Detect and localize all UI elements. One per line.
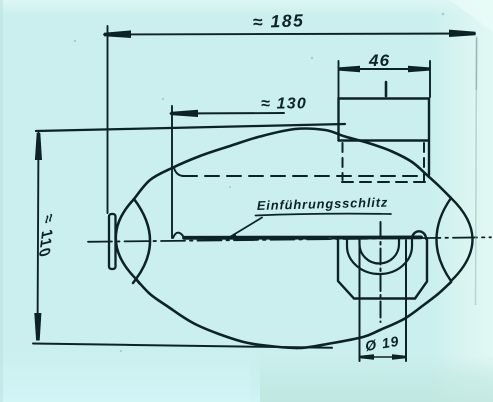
leader arrowhead — [227, 234, 237, 239]
hidden interior dashed line — [183, 175, 421, 177]
arrow 185 left — [104, 30, 131, 38]
svg-text:46: 46 — [368, 51, 390, 70]
dimension 110: line — [38, 133, 39, 340]
left flange plate — [109, 214, 116, 269]
leader line for label — [229, 218, 262, 238]
terminal box bottom line — [339, 139, 429, 141]
arrow 46 right — [408, 66, 430, 72]
horizontal centerline — [88, 237, 491, 242]
terminal box hidden sides — [342, 143, 344, 180]
lamp body outline bottom arc — [136, 279, 451, 348]
entry slot line — [184, 235, 421, 239]
label underline — [256, 214, 392, 216]
gland inner arc — [360, 239, 400, 264]
entry slot end loop — [412, 231, 426, 238]
svg-text:≈ 130: ≈ 130 — [261, 96, 307, 113]
right end cap lens — [437, 198, 452, 281]
dimension 130: line — [171, 112, 285, 115]
arrow 110 up — [35, 133, 42, 160]
arrow 46 left — [339, 66, 361, 72]
lamp body outline top arc — [134, 129, 451, 199]
gland centerline — [380, 222, 382, 322]
scan speckles — [74, 13, 445, 353]
dimension 185: line — [104, 34, 475, 35]
dimension 130: extension — [171, 106, 173, 238]
arrow 110 down — [34, 313, 41, 341]
dimension 185: extension left — [107, 26, 109, 213]
gland middle arc — [347, 239, 412, 274]
dimension 110: extensions — [36, 124, 345, 131]
arrow 185 right — [449, 30, 476, 37]
terminal box hidden bottom — [342, 181, 425, 183]
left end cap lens — [116, 199, 140, 284]
dimension 19: line — [362, 356, 403, 358]
gland bore lines — [359, 240, 361, 361]
faint scan crease — [476, 36, 477, 305]
svg-text:≈ 185: ≈ 185 — [252, 10, 304, 32]
arrow 19 left — [360, 354, 375, 360]
dimension 46: extensions — [338, 61, 340, 97]
entry slot left hook — [173, 233, 184, 238]
terminal box — [339, 99, 430, 176]
dimension 46: line — [339, 68, 429, 70]
cable gland nut outline — [338, 239, 427, 299]
box top tick — [385, 82, 388, 96]
arrow 19 right — [392, 354, 406, 360]
hidden line lead-in hook — [174, 168, 184, 176]
arrow 130 — [171, 110, 199, 117]
